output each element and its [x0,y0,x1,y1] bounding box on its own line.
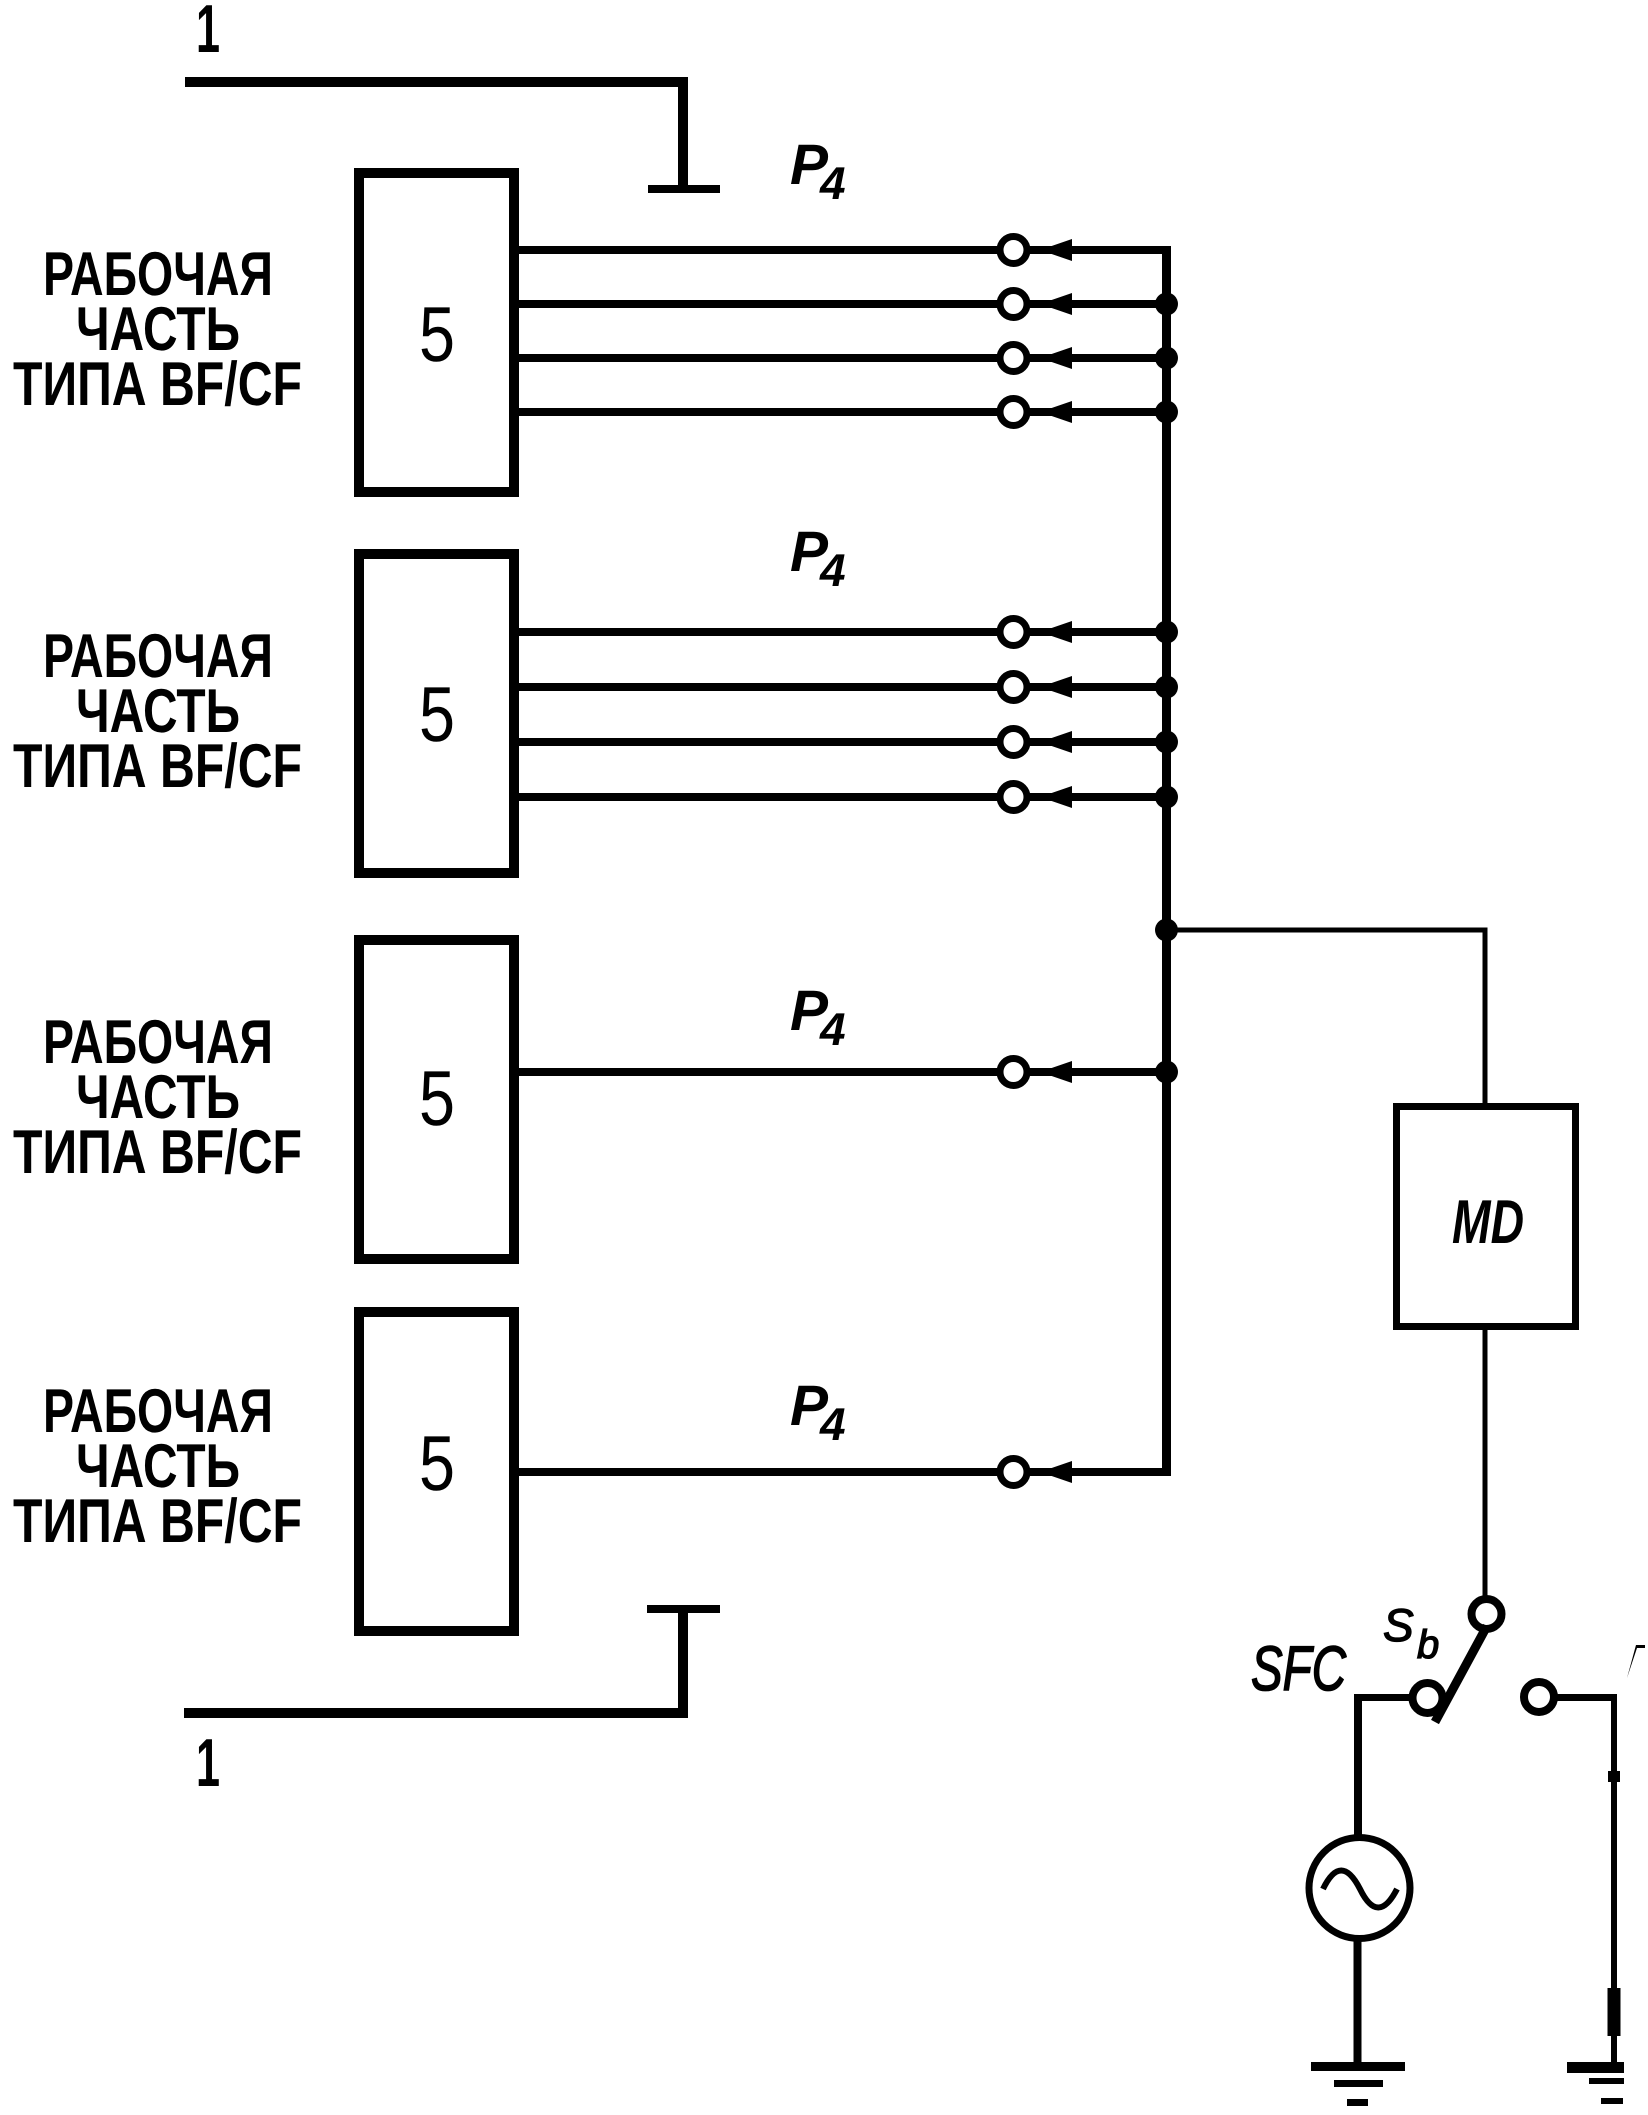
wire: box1 lead 4 [519,408,1000,416]
svg-text:ТИПА BF/CF: ТИПА BF/CF [13,732,302,801]
wire: box2 lead 4 [519,793,1000,801]
label: applied part type BF/CF (#4) [13,1377,302,1556]
svg-text:5: 5 [419,670,455,758]
label: applied part type BF/CF (#3) [13,1008,302,1187]
wire: arrow lead 2.4 [1030,793,1166,801]
applied part box 5 (#1) [359,173,514,492]
switch Sb blade [1435,1626,1487,1722]
wire: box2 lead 3 [519,738,1000,746]
AC source SFC [1309,1838,1410,1939]
applied part box 5 (#4) [359,1312,514,1631]
thick segment on right branch [1608,1988,1621,2036]
wire: bottom vertical drop of node 1 [678,1613,688,1718]
ground (left) bar 2 [1334,2080,1383,2087]
terminal circle 2.4 [1000,784,1027,811]
tick on right branch [1608,1771,1620,1782]
switch Sb pole circle (top) [1472,1599,1502,1629]
terminal bar of node 1 (top) [648,185,720,193]
svg-text:5: 5 [419,1054,455,1142]
terminal circle 1.2 [1000,291,1027,318]
wire: arrow lead 1.2 [1030,300,1166,308]
wire: box1 lead 3 [519,354,1000,362]
terminal circle 2.1 [1000,619,1027,646]
AC source sine symbol [1323,1871,1397,1908]
wire: arrow lead 2.2 [1030,683,1166,691]
terminal circle 1.1 [1000,237,1027,264]
svg-text:4: 4 [819,157,846,209]
junction dot bus 2.2 [1155,676,1178,699]
svg-text:5: 5 [419,290,455,378]
junction dot bus 2.4 [1155,786,1178,809]
label: applied part type BF/CF (#2) [13,622,302,801]
arrowhead 2.4 [1040,786,1072,808]
ground (left) bar 1 [1311,2062,1405,2071]
wire: MD branch vertical [1483,928,1488,1106]
junction dot bus 1.4 [1155,401,1178,424]
wire: arrow lead 4 [1030,1468,1166,1476]
arrowhead 2.3 [1040,731,1072,753]
wire: arrow lead 1.1 [1030,246,1166,254]
wire: source to ground [1354,1938,1362,2062]
arrowhead 2.1 [1040,621,1072,643]
wire: box4 lead [519,1468,1000,1476]
terminal bar of node 1 (bottom) [647,1605,720,1613]
terminal circle 1.4 [1000,399,1027,426]
svg-text:SFC: SFC [1251,1634,1346,1704]
svg-text:5: 5 [419,1419,455,1507]
svg-text:4: 4 [819,544,846,596]
wire: box3 lead [519,1068,1000,1076]
wire: arrow lead 2.1 [1030,628,1166,636]
ground (left) bar 3 [1347,2099,1368,2106]
wire: box2 lead 2 [519,683,1000,691]
wire: SFC branch vertical [1354,1694,1362,1835]
svg-text:4: 4 [819,1398,846,1450]
arrowhead 1.3 [1040,347,1072,369]
terminal circle 4 [1000,1459,1027,1486]
svg-text:S: S [1383,1599,1414,1651]
wire: MD branch horizontal [1166,928,1485,933]
wire: bottom horizontal lead of node 1 [184,1708,688,1718]
arrowhead 1.4 [1040,401,1072,423]
switch Sb throw circle (left, SFC) [1413,1683,1443,1713]
label: applied part type BF/CF (#1) [13,240,302,419]
arrowhead 3 [1040,1061,1072,1083]
wire: box1 lead 1 [519,246,1000,254]
wire: arrow lead 1.4 [1030,408,1166,416]
svg-text:1: 1 [196,0,220,67]
junction dot bus 1.2 [1155,293,1178,316]
wire: arrow lead 3 [1030,1068,1166,1076]
svg-text:ТИПА BF/CF: ТИПА BF/CF [13,1118,302,1187]
svg-text:4: 4 [819,1003,846,1055]
terminal circle 1.3 [1000,345,1027,372]
ground (right) bar 3 [1601,2098,1623,2104]
svg-text:1: 1 [196,1725,220,1801]
svg-text:ТИПА BF/CF: ТИПА BF/CF [13,350,302,419]
ground (right) bar 2 [1589,2078,1624,2084]
wire: right branch horizontal [1556,1694,1617,1701]
measuring device MD box [1397,1107,1576,1327]
junction dot bus 3 [1155,1061,1178,1084]
bus vertical (P4 feed) [1162,246,1171,1476]
wire: SFC branch horizontal [1354,1694,1411,1701]
wire: box2 lead 1 [519,628,1000,636]
wire: arrow lead 2.3 [1030,738,1166,746]
wire: arrow lead 1.3 [1030,354,1166,362]
wire: top vertical drop of node 1 [678,77,688,189]
wire: right branch vertical [1611,1694,1617,2062]
arrowhead 2.2 [1040,676,1072,698]
switch Sb throw circle (right) [1524,1682,1554,1712]
svg-text:MD: MD [1452,1188,1524,1257]
arrowhead 1.1 [1040,239,1072,261]
wire: box1 lead 2 [519,300,1000,308]
label fragment (right edge) [1627,1645,1645,1678]
svg-text:ТИПА BF/CF: ТИПА BF/CF [13,1487,302,1556]
junction dot bus MD branch [1155,919,1178,942]
junction dot bus 2.1 [1155,621,1178,644]
terminal circle 3 [1000,1059,1027,1086]
wire: MD to switch [1483,1330,1488,1596]
applied part box 5 (#2) [359,554,514,873]
junction dot bus 1.3 [1155,347,1178,370]
ground (right) bar 1 [1567,2062,1624,2073]
svg-text:b: b [1417,1623,1439,1667]
applied part box 5 (#3) [359,940,514,1259]
wire: top horizontal lead of node 1 [185,77,688,87]
arrowhead 1.2 [1040,293,1072,315]
terminal circle 2.2 [1000,674,1027,701]
junction dot bus 2.3 [1155,731,1178,754]
terminal circle 2.3 [1000,729,1027,756]
arrowhead 4 [1040,1461,1072,1483]
